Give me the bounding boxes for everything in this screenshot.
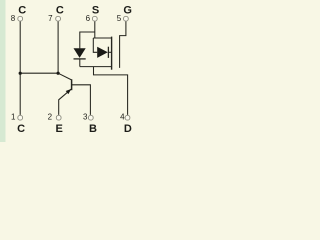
- mosfet M1 channel bar: [111, 37, 113, 70]
- svg-text:3: 3: [83, 113, 88, 122]
- junction dot A: [19, 72, 22, 75]
- wire source horizontal: [93, 37, 111, 39]
- wire pin7 down: [57, 22, 59, 74]
- svg-text:E: E: [56, 123, 63, 135]
- wire bottom to channel: [80, 66, 111, 68]
- svg-text:1: 1: [11, 113, 16, 122]
- svg-text:D: D: [124, 123, 132, 135]
- diode D2 zener (triangle right): [97, 47, 108, 58]
- svg-text:2: 2: [48, 113, 53, 122]
- diode D1 body (triangle down): [74, 48, 86, 58]
- svg-text:C: C: [18, 4, 26, 16]
- pin 1 terminal: [18, 115, 23, 120]
- svg-text:S: S: [92, 4, 99, 16]
- green left margin strip: [0, 0, 6, 142]
- wire collector bus: [20, 72, 58, 74]
- wire body diode cathode down: [79, 59, 81, 66]
- svg-text:C: C: [17, 123, 25, 135]
- svg-text:7: 7: [48, 14, 53, 23]
- wire gate from pin5: [120, 22, 126, 68]
- pin 8 terminal: [18, 16, 23, 21]
- pin 4 terminal: [125, 115, 130, 120]
- wire zener cathode to channel: [108, 51, 111, 53]
- svg-text:4: 4: [120, 113, 125, 122]
- pin 2 terminal: [56, 115, 61, 120]
- svg-text:6: 6: [86, 14, 91, 23]
- wire collector diagonal: [58, 73, 71, 80]
- pin 3 terminal: [88, 115, 93, 120]
- transistor Q1 base bar: [71, 79, 73, 90]
- diode D2 cathode bar: [107, 47, 109, 58]
- svg-text:G: G: [123, 4, 132, 16]
- wire pin6 down: [94, 22, 96, 39]
- svg-text:C: C: [56, 4, 64, 16]
- junction dot B: [57, 72, 60, 75]
- wire branch to body diode: [80, 32, 95, 48]
- svg-text:8: 8: [11, 14, 16, 23]
- wire emitter diagonal down to pin2: [59, 89, 72, 115]
- wire zener anode drop: [93, 38, 97, 52]
- wire drain branch to pin4: [94, 67, 128, 115]
- transistor Q1 emitter arrow: [66, 89, 72, 94]
- pin 6 terminal: [92, 16, 97, 21]
- wire pin1 up: [19, 73, 21, 115]
- wire pin8 down: [19, 22, 21, 74]
- svg-text:5: 5: [117, 14, 122, 23]
- diode D1 cathode bar: [74, 58, 86, 60]
- pin 5 terminal: [124, 16, 129, 21]
- pin 7 terminal: [56, 16, 61, 21]
- svg-text:B: B: [89, 123, 97, 135]
- wire base to pin3: [72, 85, 91, 115]
